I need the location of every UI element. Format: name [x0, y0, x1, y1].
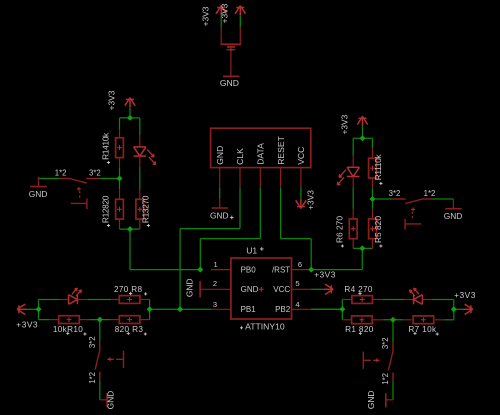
wire GND — [219, 188, 221, 198]
anchor cross — [259, 287, 264, 292]
resistor R11 — [369, 158, 377, 178]
ground at pin 2 — [199, 281, 201, 297]
wire — [353, 247, 372, 249]
power +3V3 #PWR04 — [324, 284, 334, 294]
wire — [129, 107, 131, 118]
wire — [372, 138, 374, 148]
wire — [311, 288, 325, 290]
wire — [120, 228, 140, 230]
svg-text:R5 820: R5 820 — [373, 216, 383, 243]
power +3V3 #PWR06 — [357, 116, 367, 126]
node junction — [177, 306, 183, 312]
pin stub — [300, 168, 302, 188]
pin 5 — [292, 288, 312, 290]
svg-text:+3V3: +3V3 — [200, 6, 210, 26]
wire — [139, 167, 141, 189]
svg-text:GND: GND — [444, 211, 463, 221]
power +3V3 #PWR05 — [125, 98, 135, 108]
wire — [38, 300, 40, 320]
svg-text:3*2: 3*2 — [88, 336, 97, 348]
svg-text:VCC: VCC — [273, 285, 290, 294]
svg-text:2: 2 — [213, 279, 217, 288]
node junction — [359, 245, 365, 251]
power +3V3 #PWR01 — [216, 6, 226, 16]
pin 3 — [211, 308, 231, 310]
LED D3 — [69, 295, 78, 305]
resistor R14 — [116, 138, 124, 158]
svg-text:ATTINY10: ATTINY10 — [245, 321, 285, 331]
svg-text:R12820: R12820 — [101, 195, 111, 223]
ground — [386, 399, 393, 401]
node junction — [360, 135, 366, 141]
node junction — [97, 317, 103, 323]
node junction — [370, 196, 376, 202]
svg-text:R1 820: R1 820 — [345, 325, 374, 334]
wire — [362, 126, 364, 138]
ground — [38, 177, 40, 187]
wire — [39, 319, 50, 321]
pin stub — [239, 168, 241, 188]
resistor R10 — [59, 316, 80, 324]
wire — [88, 299, 111, 301]
wire — [200, 238, 260, 240]
svg-text:+3V3: +3V3 — [106, 90, 116, 110]
wire — [311, 269, 362, 271]
switch SW2 — [393, 199, 433, 230]
wire — [352, 138, 354, 155]
resistor R12 — [116, 199, 124, 219]
svg-text:GND: GND — [241, 285, 259, 294]
svg-text:1*2: 1*2 — [88, 372, 97, 384]
connector J1 — [211, 128, 311, 167]
resistor R1 — [352, 316, 373, 324]
svg-text:3*2: 3*2 — [389, 189, 401, 198]
svg-text:CLK: CLK — [235, 148, 245, 165]
svg-text:1*2: 1*2 — [55, 169, 67, 178]
switch SW4 — [363, 342, 393, 381]
node junction — [308, 267, 314, 273]
svg-text:+3V3: +3V3 — [16, 319, 38, 329]
wire — [149, 300, 151, 310]
svg-text:RESET: RESET — [276, 135, 286, 164]
svg-text:820 R3: 820 R3 — [115, 325, 144, 334]
ground — [452, 199, 454, 209]
wire — [383, 299, 405, 301]
switch SW1 — [60, 179, 100, 210]
ground — [219, 198, 221, 208]
wire — [445, 319, 454, 321]
resistor R7 — [413, 316, 434, 324]
pin 1 — [211, 269, 231, 271]
wire — [99, 178, 119, 180]
LED D1 — [134, 147, 146, 156]
resistor R5 — [369, 219, 377, 239]
svg-text:GND: GND — [185, 278, 195, 297]
svg-text:+3V3: +3V3 — [340, 114, 350, 134]
pin 4 — [292, 308, 312, 310]
wire — [311, 308, 342, 310]
capacitor C1 — [220, 28, 222, 44]
wire — [392, 381, 394, 400]
wire — [130, 269, 200, 271]
wire — [372, 188, 374, 199]
wire — [454, 308, 464, 310]
LED D2 — [347, 167, 359, 176]
wire — [27, 308, 39, 310]
pin stub — [219, 168, 221, 188]
svg-text:U1: U1 — [246, 245, 257, 255]
wire — [39, 178, 60, 180]
wire — [220, 15, 222, 28]
node junction — [390, 317, 396, 323]
resistor R3 — [119, 316, 140, 324]
resistor R4 — [352, 296, 373, 304]
svg-text:R7 10k: R7 10k — [408, 325, 437, 334]
wire — [99, 320, 101, 342]
svg-text:1*2: 1*2 — [381, 373, 390, 385]
svg-text:+3V3: +3V3 — [314, 270, 336, 280]
wire — [353, 137, 372, 139]
wire — [281, 238, 312, 240]
LED D4 — [414, 295, 423, 305]
svg-text:GND: GND — [29, 189, 48, 199]
switch SW3 — [95, 341, 123, 380]
power +3V3 #PWR07 — [17, 304, 27, 314]
wire CLK — [239, 188, 241, 229]
node junction — [117, 176, 123, 182]
pin 2 — [200, 288, 231, 290]
svg-text:4: 4 — [295, 300, 299, 309]
wire — [139, 118, 141, 135]
node junction — [339, 306, 345, 312]
wire — [352, 188, 354, 209]
node junction — [36, 306, 42, 312]
ground — [100, 399, 107, 401]
svg-text:3*2: 3*2 — [381, 337, 390, 349]
svg-text:R6 270: R6 270 — [334, 216, 344, 243]
wire — [341, 300, 343, 320]
ground — [223, 75, 240, 77]
pin stub — [280, 168, 282, 188]
pin stub — [259, 168, 261, 188]
wire DATA — [259, 188, 261, 239]
power +3V3 #PWR08 — [463, 304, 473, 314]
svg-text:3*2: 3*2 — [89, 169, 101, 178]
wire — [119, 168, 121, 189]
svg-text:3: 3 — [213, 300, 217, 309]
svg-text:R13270: R13270 — [140, 195, 150, 223]
resistor R13 — [136, 199, 144, 219]
svg-text:PB1: PB1 — [241, 305, 257, 314]
wire — [361, 248, 363, 269]
power +3V3 #PWR03 — [296, 199, 306, 209]
wire — [149, 309, 151, 319]
svg-text:PB2: PB2 — [275, 305, 291, 314]
resistor R8 — [119, 296, 140, 304]
svg-text:270 R8: 270 R8 — [114, 285, 143, 294]
svg-text:GND: GND — [220, 78, 239, 88]
wire — [342, 299, 343, 301]
wire — [179, 229, 181, 310]
wire — [383, 319, 402, 321]
wire — [89, 319, 109, 321]
node junction — [127, 115, 133, 121]
wire VCC — [300, 188, 302, 199]
svg-text:1*2: 1*2 — [424, 189, 436, 198]
node junction — [147, 306, 153, 312]
wire — [180, 308, 211, 310]
resistor R6 — [349, 219, 357, 239]
wire — [311, 308, 342, 310]
svg-text:6: 6 — [298, 260, 302, 269]
wire — [180, 228, 240, 230]
node junction — [451, 306, 457, 312]
pin 6 — [292, 269, 312, 271]
wire — [310, 239, 312, 270]
svg-text:VCC: VCC — [296, 147, 306, 165]
wire — [39, 299, 60, 301]
wire — [119, 118, 121, 129]
svg-text:DATA: DATA — [256, 143, 266, 165]
wire — [129, 229, 131, 270]
node junction — [127, 226, 133, 232]
svg-text:5: 5 — [295, 279, 299, 288]
svg-text:1: 1 — [213, 260, 217, 269]
wire — [99, 380, 101, 400]
svg-text:/RST: /RST — [272, 265, 290, 274]
wire — [150, 308, 181, 310]
svg-text:+3V3: +3V3 — [454, 290, 476, 300]
wire — [432, 299, 454, 301]
svg-text:R4 270: R4 270 — [344, 285, 373, 294]
svg-text:PB0: PB0 — [241, 265, 257, 274]
wire — [372, 199, 374, 209]
svg-text:R1110k: R1110k — [373, 154, 383, 181]
wire — [392, 320, 394, 343]
svg-text:+3V3: +3V3 — [306, 190, 316, 210]
IC U1 ATTINY10 — [231, 258, 292, 319]
wire — [199, 239, 201, 270]
wire — [373, 198, 393, 200]
svg-text:GND: GND — [106, 391, 116, 410]
power +3V3 #PWR02 — [235, 6, 245, 16]
wire RESET — [280, 188, 282, 239]
wire — [453, 300, 455, 320]
svg-text:GND: GND — [366, 390, 376, 409]
svg-text:GND: GND — [210, 211, 229, 221]
wire — [433, 198, 454, 200]
node junction — [197, 267, 203, 273]
wire — [239, 15, 241, 28]
svg-text:R1410k: R1410k — [101, 132, 111, 160]
svg-text:GND: GND — [215, 146, 225, 165]
wire — [120, 117, 140, 119]
